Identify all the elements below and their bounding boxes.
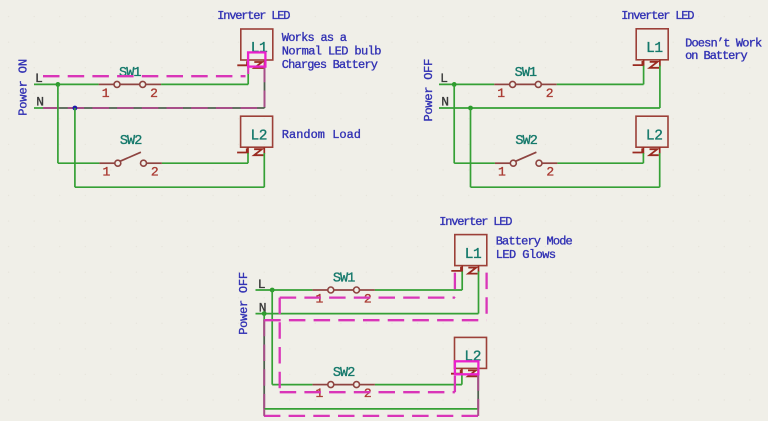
lamp L2 (top-left) pin 2 stub	[263, 147, 265, 154]
svg-text:SW1: SW1	[119, 66, 141, 81]
lamp L2 (top-left) pin 2 number mark (z)	[254, 149, 263, 155]
lamp L1 (top-left) pin 2 number mark (z)	[254, 62, 263, 68]
switch SW1 (top-right) lead pin1	[494, 83, 509, 85]
lamp L2 (top-right) pin 2 number mark (z)	[650, 149, 659, 155]
svg-text:1: 1	[498, 165, 506, 180]
battery current dashed path: to L2 horizontal (bottom)	[280, 391, 455, 393]
junction L (top-left)	[56, 82, 61, 87]
wire N bus (top-right)	[439, 107, 660, 109]
junction N (top-right)	[468, 106, 473, 111]
highlight box around L1 pins (top-left)	[248, 52, 265, 66]
wire L feed (top-left)	[34, 83, 99, 85]
svg-text:L1: L1	[646, 41, 663, 57]
wire L1 pin2 drop (bottom)	[478, 271, 480, 313]
svg-text:1: 1	[315, 291, 323, 306]
svg-text:SW1: SW1	[333, 272, 355, 287]
svg-text:SW2: SW2	[120, 134, 142, 149]
wire N bus highlighted (top-left)	[43, 107, 265, 109]
svg-text:Power OFF: Power OFF	[237, 272, 251, 335]
lamp L1 (bottom) body	[455, 235, 487, 266]
switch SW2 (bottom) lead pin1	[312, 384, 327, 386]
svg-text:2: 2	[151, 165, 159, 180]
battery current dashed path: L1 pin1 riser (bottom)	[454, 273, 456, 298]
wire SW1 to L1 pin1 (bottom)	[375, 289, 462, 291]
battery current dashed path: middle horizontal (bottom)	[264, 319, 486, 321]
junction L (bottom)	[270, 288, 275, 293]
battery current dashed path: upper horizontal (bottom)	[280, 296, 455, 298]
battery current dashed path: L2 box riser (bottom)	[454, 374, 456, 392]
switch SW1 (bottom) contact circle pin2	[354, 287, 360, 293]
lamp L1 (bottom) pin 1 stub	[461, 266, 463, 273]
lamp L1 (top-right) pin 2 stub	[659, 60, 661, 67]
switch SW2 (top-right) contact circle pin1	[510, 160, 516, 166]
wire L junction down to SW2 (top-left)	[57, 84, 59, 163]
wire L1 pin1 drop (top-right)	[643, 66, 645, 85]
svg-text:2: 2	[546, 86, 554, 101]
wire SW1 to L1 pin1 (top-right)	[557, 83, 644, 85]
svg-text:SW2: SW2	[515, 134, 537, 149]
switch SW2 (top-left) lead pin1	[99, 162, 114, 164]
wire SW2 row left (top-right)	[454, 162, 495, 164]
wire L feed (top-right)	[439, 83, 494, 85]
svg-text:Battery Mode: Battery Mode	[496, 235, 573, 249]
svg-text:L2: L2	[250, 128, 267, 144]
battery current dashed path: L1 pin2 dropper (bottom)	[485, 273, 487, 321]
wire N feed (top-left)	[34, 107, 44, 109]
switch SW2 (top-right) lead pin1	[495, 162, 510, 164]
wire N junction down upper (bottom)	[263, 314, 265, 321]
highlight dashed current path above L wire (top-left)	[43, 75, 246, 77]
lamp L2 (top-left) body	[241, 116, 273, 147]
wire L2 pin1 drop (top-left)	[247, 153, 249, 163]
svg-text:Inverter LED: Inverter LED	[217, 9, 290, 23]
wire SW2 row left (bottom)	[272, 384, 312, 386]
battery current dashed path: bottom-right link (bottom)	[477, 409, 479, 416]
battery current dashed path: left vertical (bottom)	[279, 298, 281, 393]
lamp L1 (top-left) pin 1 number mark	[237, 61, 247, 65]
svg-text:2: 2	[364, 291, 372, 306]
switch SW1 (bottom) contact circle pin1	[328, 287, 334, 293]
lamp L2 (bottom) pin 2 number mark (z)	[468, 370, 477, 376]
switch SW1 (top-left) contact circle pin1	[114, 81, 120, 87]
lamp L1 (top-right) pin 2 number mark (z)	[650, 62, 659, 68]
wire N junction down (top-right)	[470, 108, 472, 187]
wire L2 pin1 drop (bottom)	[461, 374, 463, 384]
lamp L2 (top-right) pin 1 number mark	[633, 148, 643, 152]
wire bottom return (bottom)	[264, 408, 478, 410]
svg-text:2: 2	[546, 165, 554, 180]
switch SW2 (top-left) contact circle pin2	[141, 160, 147, 166]
wire SW1 to L1 pin1 (top-left)	[161, 83, 248, 85]
switch SW1 (top-left) lead pin1	[99, 83, 114, 85]
switch SW2 (top-right) open blade	[516, 152, 537, 161]
svg-text:Inverter LED: Inverter LED	[439, 215, 512, 229]
lamp L1 (top-left) body	[241, 29, 273, 60]
wire SW2 to L2 pin1 (top-left)	[162, 162, 248, 164]
svg-text:SW2: SW2	[333, 366, 355, 381]
wire L1 pin2 drop highlighted (top-left)	[264, 66, 266, 108]
switch SW1 (bottom) lead pin2	[360, 289, 375, 291]
switch SW2 (bottom) closed blade	[334, 384, 354, 386]
lamp L2 (top-left) pin 1 stub	[247, 147, 249, 154]
wire L junction down to SW2 (bottom)	[271, 290, 273, 385]
wire bottom return (top-right)	[471, 186, 660, 188]
svg-text:SW1: SW1	[515, 66, 537, 81]
lamp L2 (top-right) pin 1 stub	[642, 147, 644, 154]
svg-text:Inverter LED: Inverter LED	[621, 9, 694, 23]
wire L junction down to SW2 (top-right)	[453, 84, 455, 163]
wire L feed (bottom)	[256, 289, 313, 291]
lamp L2 (top-right) body	[636, 116, 668, 147]
wire L2 pin2 drop (top-right)	[659, 153, 661, 187]
switch SW2 (top-right) lead pin2	[542, 162, 557, 164]
switch SW2 (top-left) open blade	[120, 152, 141, 161]
wire L2 pin2 drop highlighted (bottom)	[477, 374, 479, 409]
junction L (top-right)	[452, 82, 457, 87]
svg-text:L2: L2	[646, 128, 663, 144]
svg-text:L1: L1	[465, 247, 482, 263]
svg-text:1: 1	[102, 165, 110, 180]
switch SW1 (top-right) closed blade	[516, 83, 536, 85]
battery current dashed path: bottom-left link (bottom)	[263, 409, 265, 416]
lamp L1 (top-left) pin 1 stub	[247, 60, 249, 67]
lamp L2 (top-left) pin 1 number mark	[237, 148, 247, 152]
wire N junction down highlighted (bottom)	[263, 320, 265, 409]
svg-text:1: 1	[497, 86, 505, 101]
wire L2 pin1 drop (top-right)	[642, 153, 644, 163]
wire SW2 row left (top-left)	[58, 162, 100, 164]
svg-text:on Battery: on Battery	[685, 49, 747, 63]
wire SW2 to L2 pin1 (bottom)	[375, 384, 462, 386]
wire L1 pin2 drop (top-right)	[659, 66, 661, 108]
switch SW1 (top-left) contact circle pin2	[140, 81, 146, 87]
highlight box around L2 pins (bottom)	[455, 361, 479, 374]
wire L1 pin1 drop (top-left)	[247, 66, 249, 85]
lamp L2 (top-right) pin 2 stub	[659, 147, 661, 154]
lamp L1 (top-left) pin 2 stub	[264, 60, 266, 67]
svg-text:1: 1	[315, 386, 323, 401]
switch SW2 (bottom) contact circle pin2	[354, 382, 360, 388]
svg-text:Works as a: Works as a	[282, 31, 347, 45]
switch SW1 (top-left) lead pin2	[146, 83, 161, 85]
svg-text:Power OFF: Power OFF	[422, 59, 436, 122]
switch SW1 (bottom) lead pin1	[312, 289, 327, 291]
wire SW2 to L2 pin1 (top-right)	[557, 162, 643, 164]
svg-text:Random Load: Random Load	[282, 128, 361, 142]
lamp L1 (top-right) pin 1 stub	[643, 60, 645, 67]
highlight dashed riser to L1 pin1 (top-left)	[247, 67, 249, 74]
wire L1 pin1 drop (bottom)	[461, 271, 463, 290]
svg-text:Power ON: Power ON	[17, 59, 31, 116]
switch SW2 (top-left) contact circle pin1	[115, 160, 121, 166]
switch SW1 (top-right) contact circle pin2	[535, 81, 541, 87]
junction N (bottom)	[262, 311, 267, 316]
svg-text:2: 2	[150, 86, 158, 101]
switch SW1 (top-left) closed blade	[120, 83, 140, 85]
lamp L1 (bottom) pin 2 stub	[478, 266, 480, 273]
svg-text:Charges Battery: Charges Battery	[282, 58, 378, 72]
lamp L2 (bottom) pin 2 stub	[477, 368, 479, 375]
switch SW1 (top-right) contact circle pin1	[510, 81, 516, 87]
switch SW2 (top-right) contact circle pin2	[536, 160, 542, 166]
lamp L1 (bottom) pin 2 number mark (z)	[468, 268, 477, 274]
svg-text:Normal LED bulb: Normal LED bulb	[282, 45, 381, 59]
wire L2 pin2 drop (top-left)	[263, 153, 265, 187]
wire bottom return (top-left)	[75, 186, 264, 188]
switch SW2 (top-left) lead pin2	[147, 162, 162, 164]
svg-text:1: 1	[102, 86, 110, 101]
switch SW1 (top-right) lead pin2	[541, 83, 556, 85]
wire N bus (bottom)	[256, 313, 479, 315]
switch SW1 (bottom) closed blade	[334, 289, 354, 291]
lamp L1 (top-right) body	[636, 29, 668, 60]
lamp L2 (bottom) pin 1 number mark	[451, 370, 461, 374]
lamp L2 (bottom) body	[455, 337, 487, 368]
svg-text:2: 2	[364, 386, 372, 401]
wire N junction down (top-left)	[74, 108, 76, 187]
switch SW2 (bottom) contact circle pin1	[328, 382, 334, 388]
battery current dashed path: bottom horizontal (bottom)	[264, 415, 479, 417]
lamp L2 (bottom) pin 1 stub	[461, 368, 463, 375]
lamp L1 (top-right) pin 1 number mark	[633, 61, 643, 65]
lamp L1 (bottom) pin 1 number mark	[451, 267, 461, 271]
junction N (top-left)	[73, 106, 78, 111]
svg-text:LED Glows: LED Glows	[496, 248, 556, 262]
switch SW2 (bottom) lead pin2	[360, 384, 375, 386]
